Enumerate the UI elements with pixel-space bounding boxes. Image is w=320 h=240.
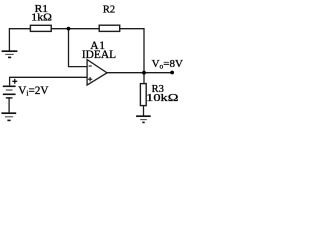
ground 1 (top left) bbox=[2, 51, 18, 57]
resistor R1 bbox=[30, 25, 51, 31]
svg-text:10kΩ: 10kΩ bbox=[146, 92, 178, 104]
output terminal dot bbox=[170, 71, 174, 75]
resistor R2 bbox=[99, 25, 120, 31]
ground 2 (below V1) bbox=[1, 113, 16, 120]
op-amp minus sign bbox=[89, 65, 92, 67]
battery source V1 bbox=[3, 86, 16, 98]
wire battery bottom to ground2 bbox=[8, 98, 10, 113]
junction node at output bbox=[142, 71, 146, 75]
wire R1 to R2 through junction bbox=[52, 28, 99, 30]
battery plus sign bbox=[12, 79, 17, 84]
wire R3 top from output node bbox=[143, 73, 145, 84]
ground 3 (below R3) bbox=[136, 116, 151, 122]
op-amp plus sign bbox=[88, 77, 92, 81]
svg-text:R2: R2 bbox=[103, 5, 115, 16]
wire R2 right to top-right corner down to output node bbox=[120, 29, 144, 73]
resistor R3 bbox=[140, 84, 146, 106]
svg-text:1kΩ: 1kΩ bbox=[31, 12, 52, 24]
svg-text:Vo=8V: Vo=8V bbox=[152, 58, 183, 71]
svg-text:Vi=2V: Vi=2V bbox=[18, 85, 48, 98]
wire output from op-amp apex to terminal bbox=[107, 72, 172, 74]
svg-text:IDEAL: IDEAL bbox=[82, 49, 116, 61]
wire inverting input from junction down to op-amp bbox=[69, 29, 87, 67]
junction node at R1/R2 bbox=[67, 27, 71, 31]
op-amp U1 triangle bbox=[87, 60, 107, 86]
wire R3 bottom to ground3 bbox=[143, 106, 145, 116]
wire non-inverting input from V1 to op-amp bbox=[10, 77, 87, 84]
wire top from ground1 to R1 bbox=[9, 29, 30, 51]
